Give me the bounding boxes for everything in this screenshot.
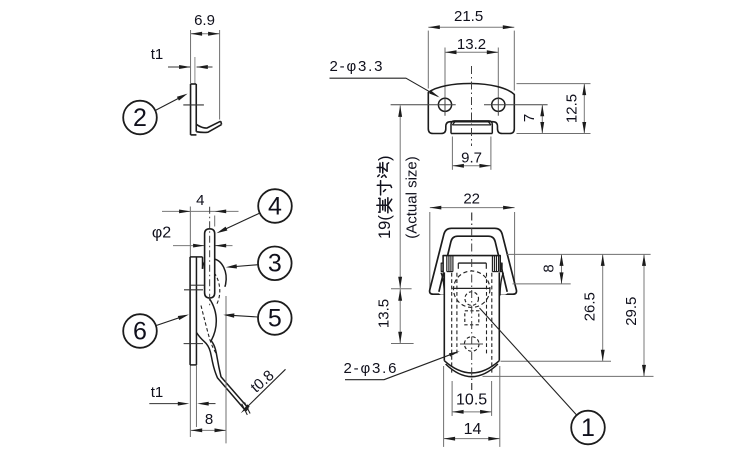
- svg-text:2: 2: [133, 104, 147, 132]
- svg-text:6: 6: [133, 317, 147, 345]
- svg-text:19(: 19(: [376, 215, 394, 239]
- svg-text:(Actual size): (Actual size): [404, 156, 421, 239]
- svg-text:1: 1: [581, 414, 595, 442]
- svg-text:21.5: 21.5: [454, 8, 483, 25]
- svg-text:26.5: 26.5: [582, 292, 599, 321]
- svg-text:φ2: φ2: [152, 225, 171, 242]
- svg-text:2-φ3.6: 2-φ3.6: [344, 360, 397, 377]
- svg-text:4: 4: [268, 192, 282, 220]
- svg-text:22: 22: [463, 190, 480, 207]
- svg-text:9.7: 9.7: [461, 149, 482, 166]
- svg-text:14: 14: [464, 421, 482, 438]
- svg-text:29.5: 29.5: [623, 297, 640, 326]
- svg-text:13.2: 13.2: [457, 36, 486, 53]
- svg-text:3: 3: [268, 250, 282, 278]
- svg-text:12.5: 12.5: [564, 94, 581, 123]
- svg-text:5: 5: [268, 304, 282, 332]
- svg-text:8: 8: [205, 411, 213, 428]
- svg-text:13.5: 13.5: [376, 299, 393, 328]
- svg-text:8: 8: [541, 264, 558, 272]
- svg-text:7: 7: [521, 114, 538, 122]
- svg-text:2-φ3.3: 2-φ3.3: [330, 58, 383, 75]
- svg-text:10.5: 10.5: [456, 392, 487, 409]
- svg-text:6.9: 6.9: [194, 12, 215, 29]
- svg-text:4: 4: [196, 192, 204, 209]
- svg-text:t1: t1: [151, 46, 164, 63]
- svg-text:): ): [376, 156, 394, 162]
- svg-text:t1: t1: [151, 384, 164, 401]
